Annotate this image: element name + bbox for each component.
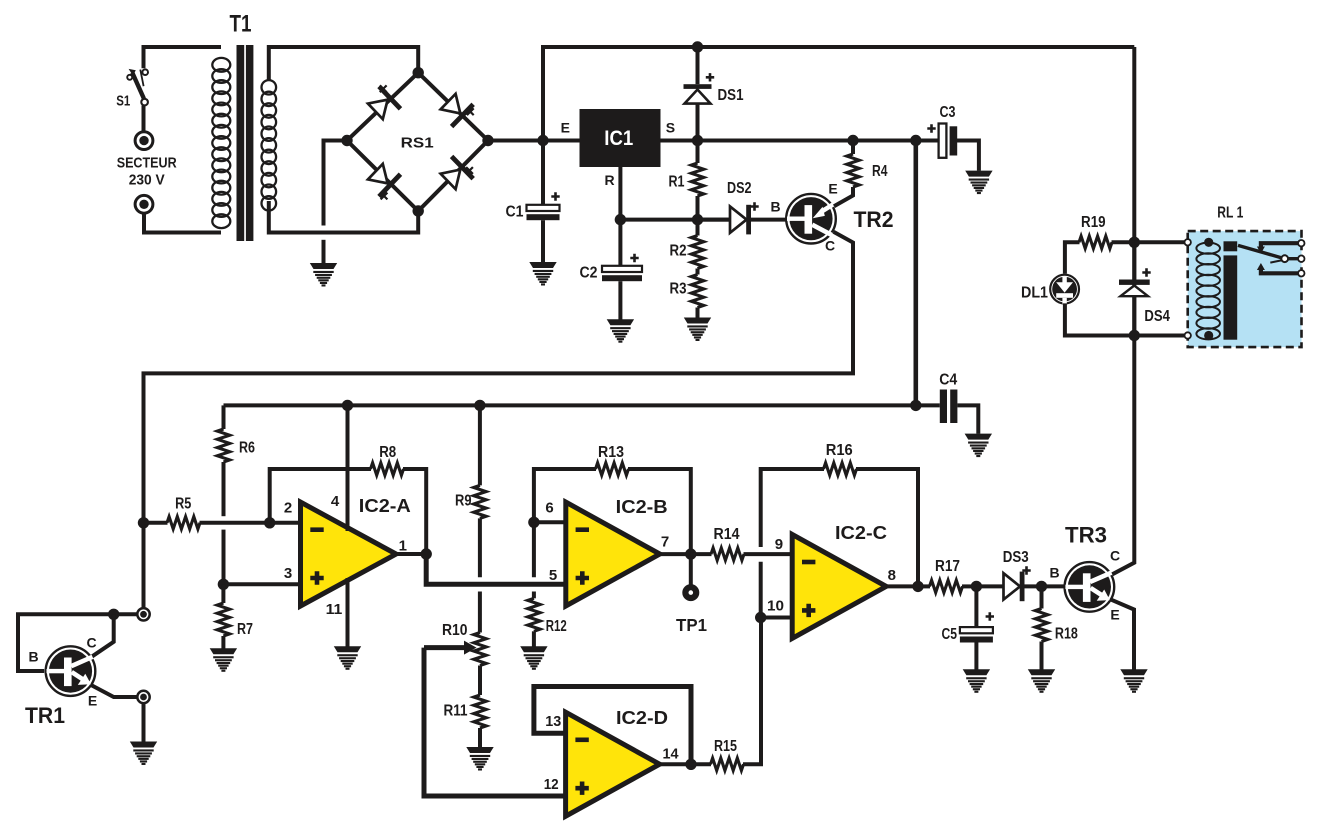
pin label C of TR3 (1110, 548, 1120, 564)
node bridge top vertex (413, 67, 424, 78)
label R10 (442, 622, 468, 639)
svg-text:R14: R14 (714, 526, 740, 543)
diode DS3 (976, 566, 1041, 601)
svg-text:C5: C5 (942, 626, 958, 643)
wire IC2-B output (660, 552, 691, 556)
transformer T1 core (237, 45, 254, 241)
svg-text:230 V: 230 V (129, 171, 165, 188)
switch S1 (127, 69, 148, 131)
wire pin10 line (761, 616, 793, 620)
label R1 (669, 174, 685, 191)
wire R16 feedback loop (761, 463, 918, 587)
wire IC2-A output (396, 552, 426, 556)
resistor R18 (1035, 586, 1047, 669)
svg-text:DS3: DS3 (1003, 549, 1029, 566)
label R5 (175, 496, 191, 513)
svg-text:C: C (1110, 548, 1120, 564)
relay core bars (1224, 241, 1238, 339)
wire IC2-D output (660, 762, 691, 766)
wire R13 feedback loop (534, 463, 691, 554)
svg-text:C: C (825, 238, 835, 254)
label TR3 (1065, 523, 1107, 548)
node C5 junction (971, 581, 982, 592)
op-amp IC2-A (301, 502, 397, 606)
node R18 junction (1036, 581, 1047, 592)
label RS1 (401, 135, 434, 151)
testpoint TP1 (685, 554, 696, 598)
pin label C of TR1 (86, 635, 96, 651)
label DS1 (718, 87, 744, 104)
label R2 (670, 243, 687, 260)
svg-text:RS1: RS1 (401, 135, 434, 151)
label R6 (239, 440, 255, 457)
resistor R6 (217, 405, 229, 584)
svg-text:R9: R9 (455, 493, 472, 510)
ground C2 (607, 319, 634, 343)
ground C3 (965, 171, 992, 195)
op-amp IC2-C (792, 534, 886, 638)
label R19 (1081, 214, 1106, 231)
svg-text:DL1: DL1 (1021, 285, 1048, 302)
wire IC2-D feedback loop pin13 (534, 687, 691, 765)
svg-text:12: 12 (544, 776, 559, 793)
ground bridge minus (310, 263, 337, 287)
svg-text:IC1: IC1 (604, 127, 633, 150)
svg-text:C2: C2 (580, 265, 598, 282)
terminal SECTEUR top (135, 132, 153, 150)
svg-text:DS4: DS4 (1144, 308, 1170, 325)
pin label 4 (331, 493, 340, 510)
trimmer R10 wiper arrow (424, 641, 477, 655)
wire right vertical rail (1112, 47, 1134, 574)
node C3 junction (910, 135, 921, 146)
label R8 (379, 444, 396, 461)
wire secondary top to bridge top vertex (269, 47, 418, 81)
svg-text:S: S (666, 120, 675, 136)
pin label E of TR2 (828, 181, 837, 197)
transformer T1 secondary winding (262, 80, 277, 210)
resistor R5 (144, 517, 301, 529)
svg-text:E: E (828, 181, 837, 197)
node pin8 junction (912, 581, 923, 592)
rectifier RS1 diode top-right (437, 90, 475, 128)
label DS4 (1144, 308, 1170, 325)
node R1 R2 junction (692, 214, 703, 225)
terminal TR1 collector (137, 608, 149, 620)
wire TR1 C to junction (91, 614, 114, 657)
wire R9 to R10 (below bus break) (478, 592, 482, 633)
svg-text:TR3: TR3 (1065, 523, 1107, 548)
svg-text:IC2-A: IC2-A (359, 495, 411, 516)
node R19 DS4 relay-top junction (1129, 237, 1140, 248)
relay contact bottom (NO) (1257, 263, 1301, 273)
svg-text:8: 8 (888, 567, 896, 584)
diode DS1 (684, 47, 715, 141)
wire TR3 emitter to ground (1112, 600, 1135, 670)
wire TR1 collector loop (18, 614, 137, 671)
svg-text:C3: C3 (940, 104, 956, 121)
pin label 3 (284, 565, 292, 582)
wire bridge diamond edges (347, 73, 488, 211)
wire primary top from S1 to T1 primary coil (144, 47, 222, 68)
ground R3 (684, 318, 711, 342)
rectifier RS1 diode bottom-right (437, 155, 475, 193)
ground TR3 emitter (1120, 669, 1147, 693)
label R3 (670, 281, 687, 298)
svg-text:IC2-B: IC2-B (616, 496, 668, 517)
label R13 (598, 444, 624, 461)
svg-text:TP1: TP1 (676, 615, 707, 635)
capacitor C5 (960, 586, 994, 669)
transistor TR2 (786, 194, 836, 244)
ground IC2-A pin11 (334, 646, 361, 670)
label R9 (455, 493, 472, 510)
node DS1 top rail junction (692, 41, 703, 52)
node bridge bottom vertex (413, 205, 424, 216)
label R15 (714, 738, 737, 755)
capacitor C4 (940, 390, 979, 434)
svg-text:RL 1: RL 1 (1217, 204, 1243, 221)
node DS4 bottom junction (1129, 330, 1140, 341)
svg-text:R8: R8 (379, 444, 396, 461)
label C1 (506, 204, 524, 221)
trimmer R10 (474, 633, 486, 666)
label R17 (935, 558, 960, 575)
svg-text:E: E (561, 119, 570, 135)
svg-text:IC2-C: IC2-C (835, 522, 887, 543)
wire secondary bottom to bridge bottom vertex (269, 201, 418, 233)
svg-text:R12: R12 (546, 618, 567, 635)
resistor R17 (918, 580, 976, 592)
transistor TR1 (46, 646, 96, 696)
ground R18 (1028, 669, 1055, 693)
node R pin junction (615, 214, 626, 225)
wire R10 wiper to IC2-D pin12 (424, 648, 566, 796)
op-amp IC2-B (566, 502, 660, 606)
svg-text:R10: R10 (442, 622, 468, 639)
wire IC1 S output rail (661, 139, 939, 143)
wire pin10 column (break over pin9 wire) (759, 562, 763, 618)
svg-text:DS2: DS2 (727, 180, 752, 197)
pin label 2 (284, 500, 292, 517)
terminal SECTEUR bottom (135, 195, 153, 213)
label C5 (942, 626, 958, 643)
svg-text:7: 7 (661, 534, 669, 551)
ground C5 (963, 669, 990, 693)
wire op-amp supply rail (224, 403, 940, 407)
resistor R4 (834, 141, 859, 207)
pin label 7 (661, 534, 669, 551)
pin label E of TR1 (88, 693, 97, 709)
ground TR1 (130, 742, 157, 766)
op-amp IC2-D (566, 712, 660, 816)
svg-text:R3: R3 (670, 281, 687, 298)
svg-text:C: C (86, 635, 96, 651)
wire TR1 emitter terminal to ground (142, 704, 146, 742)
svg-text:E: E (88, 693, 97, 709)
svg-text:S1: S1 (116, 92, 130, 109)
ground R7 (210, 648, 237, 672)
resistor R19 (1065, 236, 1134, 274)
diode DS4 (1119, 242, 1151, 335)
svg-text:R16: R16 (826, 442, 853, 459)
label R11 (444, 703, 468, 720)
wire IC2-C output (886, 584, 918, 588)
x mark bottom-left diode (381, 193, 388, 200)
pin label C of TR2 (825, 238, 835, 254)
label IC2-C (835, 522, 887, 543)
svg-text:R17: R17 (935, 558, 960, 575)
svg-text:IC2-D: IC2-D (616, 707, 668, 728)
pin label B of TR3 (1050, 564, 1060, 580)
svg-text:E: E (1110, 607, 1119, 623)
node bridge right vertex (482, 135, 493, 146)
wire TR3 base (1042, 584, 1065, 588)
pin label 10 (767, 597, 784, 614)
node R5 junction (138, 517, 149, 528)
capacitor C3 (916, 124, 979, 171)
node relay coil bottom dot (1204, 331, 1213, 340)
node rail C3-column junction (910, 400, 921, 411)
resistor R11 (474, 666, 486, 748)
node pin6 R13 junction (528, 517, 539, 528)
label R4 (872, 163, 888, 180)
label R16 (826, 442, 853, 459)
wire bridge output to IC1 E (488, 139, 580, 143)
wire +V unregulated top rail (543, 47, 1134, 141)
svg-text:11: 11 (326, 601, 343, 618)
terminal TR1 emitter (137, 691, 149, 703)
pin label 8 (888, 567, 896, 584)
svg-text:5: 5 (549, 567, 557, 584)
pin label 5 (549, 567, 557, 584)
label IC2-D (616, 707, 668, 728)
wire primary bottom (144, 214, 221, 233)
label DS2 (727, 180, 752, 197)
pin label R of IC1 (604, 172, 614, 188)
node pin3 R7 junction (218, 579, 229, 590)
x mark top-left diode (380, 85, 387, 92)
transistor TR3 (1065, 562, 1115, 612)
label TR1 (25, 703, 65, 728)
wire bridge minus to ground (break at secondary wire) (324, 141, 348, 265)
led DL1 (1050, 275, 1079, 304)
label SECTEUR 230 V (117, 154, 177, 188)
node pin2 R8 junction (264, 517, 275, 528)
pin label E of TR3 (1110, 607, 1119, 623)
wire R8 feedback loop (270, 463, 427, 554)
pin label B of TR1 (28, 649, 38, 665)
svg-text:R5: R5 (175, 496, 191, 513)
resistor R1 (691, 141, 703, 220)
svg-text:R11: R11 (444, 703, 468, 720)
label IC2-B (616, 496, 668, 517)
wire pin4 from rail (346, 405, 350, 531)
svg-text:2: 2 (284, 500, 292, 517)
wire relay coil top (1134, 240, 1208, 244)
label RL 1 (1217, 204, 1243, 221)
label C2 (580, 265, 598, 282)
resistor R3 (691, 269, 703, 318)
svg-text:9: 9 (775, 536, 783, 553)
resistor R2 (691, 220, 703, 269)
label TR2 (854, 207, 894, 232)
rectifier RS1 diode bottom-left (365, 160, 403, 198)
relay contact common pivot (1270, 255, 1301, 262)
label S1 (116, 92, 130, 109)
pin label 6 (545, 500, 553, 517)
svg-text:R13: R13 (598, 444, 624, 461)
wire IC1 R pin to DS2 line (620, 167, 729, 220)
capacitor C2 (602, 220, 642, 320)
pin label 12 (544, 776, 559, 793)
svg-text:C4: C4 (939, 372, 957, 389)
svg-text:6: 6 (545, 500, 553, 517)
pin label 9 (775, 536, 783, 553)
svg-text:TR2: TR2 (854, 207, 894, 232)
label T1 (230, 11, 252, 38)
svg-text:3: 3 (284, 565, 292, 582)
wire pin11 to ground (346, 578, 350, 647)
svg-text:R2: R2 (670, 243, 687, 260)
label C3 (940, 104, 956, 121)
label DL1 (1021, 285, 1048, 302)
relay contact top (NC) (1257, 243, 1301, 253)
label R14 (714, 526, 740, 543)
label DS3 (1003, 549, 1029, 566)
x mark bottom-right diode (466, 167, 473, 174)
pin label B of TR2 (771, 198, 781, 214)
resistor R12 (break over bus) (528, 522, 540, 646)
relay RL1 box (1188, 231, 1302, 347)
diode DS2 (698, 202, 787, 234)
node IC2-A output junction (421, 548, 432, 559)
ground R11 (466, 747, 493, 771)
svg-text:14: 14 (663, 746, 680, 763)
svg-text:13: 13 (545, 713, 561, 730)
ground R12 (520, 646, 547, 670)
svg-text:SECTEUR: SECTEUR (117, 154, 177, 171)
node R4 top junction (847, 135, 858, 146)
resistor R7 (217, 584, 229, 648)
svg-text:B: B (28, 649, 38, 665)
wire TR1 E to terminal (91, 685, 137, 697)
relay RL1 coil (1196, 243, 1220, 340)
node C1 top-rail junction (537, 135, 548, 146)
svg-text:R7: R7 (237, 621, 253, 638)
ground C1 (529, 262, 556, 286)
node pin10 junction (755, 612, 766, 623)
svg-text:1: 1 (399, 538, 407, 555)
pin label S of IC1 (666, 120, 675, 136)
svg-text:R15: R15 (714, 738, 737, 755)
pin label E of IC1 (561, 119, 570, 135)
svg-text:R1: R1 (669, 174, 685, 191)
label IC2-A (359, 495, 411, 516)
node relay coil top dot (1204, 238, 1213, 247)
rectifier RS1 diode top-left (365, 85, 403, 123)
transformer T1 primary winding (212, 58, 230, 228)
node DS1 bottom junction (692, 135, 703, 146)
svg-text:R4: R4 (872, 163, 888, 180)
label C4 (939, 372, 957, 389)
wire DL1 bottom to relay bottom line (1065, 303, 1134, 335)
svg-text:R18: R18 (1055, 626, 1078, 643)
node bridge left vertex (341, 135, 352, 146)
resistor R14 (691, 548, 792, 560)
svg-text:R: R (604, 172, 614, 188)
label R18 (1055, 626, 1078, 643)
relay armature diagonal (1238, 245, 1285, 258)
pin label 1 (399, 538, 407, 555)
wire pin6 line (534, 520, 566, 524)
wire IC2-A output bus to IC2-B pin5 (426, 554, 566, 584)
wire pin3 line (223, 582, 300, 586)
svg-text:TR1: TR1 (25, 703, 65, 728)
wire TR2 collector bus (144, 232, 854, 608)
node pin14 junction (685, 759, 696, 770)
node rail R9 junction (474, 400, 485, 411)
wire relay coil bottom (1134, 334, 1208, 338)
label R7 (237, 621, 253, 638)
svg-text:T1: T1 (230, 11, 252, 38)
wire C3 junction down to supply rail (913, 141, 918, 406)
node TR1 collector junction (108, 609, 119, 620)
svg-text:4: 4 (331, 493, 340, 510)
relay terminal circles (1185, 239, 1305, 339)
label TP1 (676, 615, 707, 635)
resistor R9 (474, 405, 486, 577)
svg-text:R6: R6 (239, 440, 255, 457)
capacitor C1 (527, 141, 560, 263)
pin label 14 (663, 746, 680, 763)
node rail pin4 junction (342, 400, 353, 411)
svg-text:B: B (1050, 564, 1060, 580)
node pin7 junction (685, 548, 696, 559)
resistor R15 (691, 618, 761, 771)
svg-text:10: 10 (767, 597, 784, 614)
pin label 11 (326, 601, 343, 618)
regulator IC1 (580, 109, 661, 167)
ground C4 (965, 434, 992, 458)
pin label 13 (545, 713, 561, 730)
x mark top-right diode (467, 108, 474, 115)
svg-text:C1: C1 (506, 204, 524, 221)
svg-text:B: B (771, 198, 781, 214)
svg-text:R19: R19 (1081, 214, 1106, 231)
label R12 (546, 618, 567, 635)
svg-text:DS1: DS1 (718, 87, 744, 104)
